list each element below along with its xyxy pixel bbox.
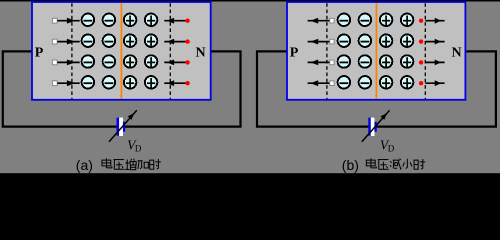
negative acceptor ion circle B1.1 xyxy=(338,14,351,27)
hole marker square B3 xyxy=(330,60,334,65)
electron marker dot B3 xyxy=(419,60,423,64)
svg-text:P: P xyxy=(290,46,299,61)
caption B char 电 xyxy=(366,158,376,168)
negative acceptor ion circle A4.2 xyxy=(103,76,116,89)
svg-text:N: N xyxy=(196,46,206,61)
boundary-motion arrow right B4 (pointing right) xyxy=(425,82,444,84)
electron marker dot A2 xyxy=(185,39,189,43)
hole marker square B1 xyxy=(330,18,334,23)
positive donor ion circle A1.4 xyxy=(145,14,158,27)
caption A char 电 xyxy=(102,158,112,168)
battery VD of panel A xyxy=(119,118,123,136)
positive donor ion circle A1.3 xyxy=(124,14,137,27)
negative acceptor ion circle B3.2 xyxy=(359,55,372,68)
hole marker square B2 xyxy=(330,39,334,44)
depletion boundary dashed line B-right xyxy=(424,3,426,99)
variable-source diagonal arrow A xyxy=(109,110,137,142)
negative acceptor ion circle A3.2 xyxy=(103,55,116,68)
metallurgical junction line B (orange) xyxy=(375,3,377,99)
semiconductor body B (P-N block) xyxy=(287,2,465,100)
negative acceptor ion circle B4.2 xyxy=(359,76,372,89)
hole marker square A2 xyxy=(52,39,57,44)
positive donor ion circle A3.4 xyxy=(145,55,158,68)
svg-text:(b): (b) xyxy=(342,157,359,173)
hole marker square A4 xyxy=(52,81,57,86)
electron marker dot B1 xyxy=(419,19,423,23)
svg-text:N: N xyxy=(451,46,461,61)
hole marker square A3 xyxy=(52,60,57,65)
positive donor ion circle A3.3 xyxy=(124,55,137,68)
negative acceptor ion circle A2.2 xyxy=(103,34,116,47)
negative acceptor ion circle A2.1 xyxy=(82,34,95,47)
positive donor ion circle B2.3 xyxy=(380,34,393,47)
caption A char 加 xyxy=(138,161,149,169)
caption A char 压 xyxy=(113,160,124,170)
caption B char 时 xyxy=(414,159,425,169)
negative acceptor ion circle B2.2 xyxy=(359,34,372,47)
hole marker square A1 xyxy=(52,18,57,23)
negative acceptor ion circle B4.1 xyxy=(338,76,351,89)
wire: circuit loop B xyxy=(257,51,496,126)
negative acceptor ion circle A4.1 xyxy=(82,76,95,89)
semiconductor body A (P-N block) xyxy=(32,2,211,100)
caption A char 增 xyxy=(125,159,136,170)
boundary-motion arrow left A1 (pointing right) xyxy=(57,20,79,22)
boundary-motion arrow right B2 (pointing right) xyxy=(425,41,444,43)
boundary-motion arrow left B4 (pointing left) xyxy=(308,82,330,84)
electron marker dot A4 xyxy=(185,81,189,85)
caption A char 时 xyxy=(150,159,161,169)
electron marker dot B2 xyxy=(419,39,423,43)
positive donor ion circle A4.3 xyxy=(124,76,137,89)
negative acceptor ion circle A1.2 xyxy=(103,14,116,27)
hole marker square B4 xyxy=(330,81,334,86)
wire: circuit loop A xyxy=(3,51,241,126)
positive donor ion circle A4.4 xyxy=(145,76,158,89)
depletion boundary dashed line A-right xyxy=(169,3,171,99)
electron marker dot A3 xyxy=(185,60,189,64)
variable-source diagonal arrow B xyxy=(362,110,390,142)
boundary-motion arrow left B1 (pointing left) xyxy=(308,20,330,22)
negative acceptor ion circle B2.1 xyxy=(338,34,351,47)
positive donor ion circle A2.3 xyxy=(124,34,137,47)
boundary-motion arrow left A4 (pointing right) xyxy=(57,82,79,84)
positive donor ion circle B1.4 xyxy=(401,14,414,27)
metallurgical junction line A (orange) xyxy=(120,3,122,99)
caption B char 小 xyxy=(403,159,412,169)
svg-text:P: P xyxy=(35,46,44,61)
depletion boundary dashed line B-left xyxy=(326,3,328,99)
negative acceptor ion circle A1.1 xyxy=(82,14,95,27)
positive donor ion circle B4.4 xyxy=(401,76,414,89)
negative acceptor ion circle B3.1 xyxy=(338,55,351,68)
positive donor ion circle B3.3 xyxy=(380,55,393,68)
svg-text:D: D xyxy=(388,143,395,153)
boundary-motion arrow left B2 (pointing left) xyxy=(308,41,330,43)
boundary-motion arrow right A2 (pointing left) xyxy=(164,41,186,43)
caption B char 减 xyxy=(390,159,401,169)
boundary-motion arrow right B1 (pointing right) xyxy=(425,20,444,22)
boundary-motion arrow right A1 (pointing left) xyxy=(164,20,186,22)
boundary-motion arrow left B3 (pointing left) xyxy=(308,61,330,63)
boundary-motion arrow left A3 (pointing right) xyxy=(57,61,79,63)
negative acceptor ion circle A3.1 xyxy=(82,55,95,68)
negative acceptor ion circle B1.2 xyxy=(359,14,372,27)
boundary-motion arrow left A2 (pointing right) xyxy=(57,41,79,43)
boundary-motion arrow right A4 (pointing left) xyxy=(164,82,186,84)
svg-text:(a): (a) xyxy=(76,157,93,173)
electron marker dot A1 xyxy=(185,19,189,23)
positive donor ion circle A2.4 xyxy=(145,34,158,47)
caption B char 压 xyxy=(378,160,389,170)
svg-text:D: D xyxy=(135,143,142,153)
positive donor ion circle B1.3 xyxy=(380,14,393,27)
boundary-motion arrow right B3 (pointing right) xyxy=(425,61,444,63)
boundary-motion arrow right A3 (pointing left) xyxy=(164,61,186,63)
positive donor ion circle B4.3 xyxy=(380,76,393,89)
positive donor ion circle B2.4 xyxy=(401,34,414,47)
positive donor ion circle B3.4 xyxy=(401,55,414,68)
electron marker dot B4 xyxy=(419,81,423,85)
battery VD of panel B xyxy=(371,118,375,136)
depletion boundary dashed line A-left xyxy=(71,3,73,99)
